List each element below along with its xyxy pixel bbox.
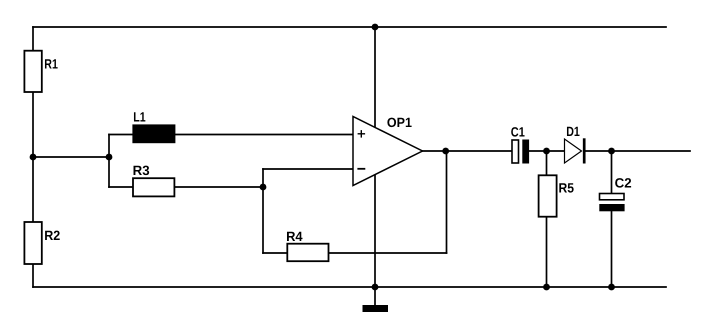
resistor R5	[539, 175, 575, 216]
pin minus of OP1	[358, 168, 364, 170]
wire node A to R2 top	[32, 157, 34, 222]
pin plus of OP1	[358, 131, 364, 137]
wire node C down to R4 row	[262, 187, 264, 253]
capacitor C2	[599, 175, 631, 211]
junction node B	[106, 154, 113, 161]
svg-text:R5: R5	[559, 181, 575, 196]
svg-text:R1: R1	[44, 57, 58, 72]
wire R5 bottom to bottom rail	[546, 217, 548, 288]
wire bottom ground rail	[33, 286, 666, 288]
junction on top rail at supply tap	[372, 24, 379, 31]
svg-text:R3: R3	[133, 163, 150, 178]
junction ground node	[372, 284, 379, 291]
resistor R4	[286, 229, 328, 261]
junction C2 bottom	[608, 284, 615, 291]
wire to L1 left	[109, 134, 133, 136]
wire C2 bottom to bottom rail	[611, 212, 613, 288]
junction node A	[30, 154, 37, 161]
svg-text:D1: D1	[566, 124, 580, 139]
wire to R4 left	[263, 252, 287, 254]
wire node D down to R5	[546, 151, 548, 176]
wire ground stub	[374, 287, 376, 305]
wire feedback riser to output node	[446, 151, 448, 253]
wire R2 bottom to bottom rail	[32, 264, 34, 287]
junction output node	[442, 148, 449, 155]
wire to op-amp minus input	[263, 168, 353, 170]
wire to R3 left	[109, 186, 133, 188]
junction node C	[260, 184, 267, 191]
svg-text:L1: L1	[133, 109, 146, 124]
wire op-amp negative supply to bottom rail	[374, 175, 376, 288]
wire node E to open output end	[612, 150, 691, 152]
resistor R1	[24, 51, 58, 92]
wire node A to node B	[33, 156, 109, 158]
wire node B up to L1 row	[108, 135, 110, 158]
wire node C up to minus row	[262, 169, 264, 187]
junction node E	[608, 148, 615, 155]
junction node D	[543, 148, 550, 155]
svg-text:R2: R2	[44, 228, 60, 243]
wire D1 cathode to node E	[584, 150, 612, 152]
wire op-amp output to C1	[423, 150, 513, 152]
wire op-amp positive supply	[374, 27, 376, 128]
resistor R3	[133, 163, 175, 196]
wire R1 bottom to node A	[32, 92, 34, 157]
svg-text:R4: R4	[286, 229, 303, 244]
wire left rail upper (top rail to R1)	[32, 27, 34, 51]
resistor R2	[24, 222, 60, 264]
wire R3 right to node C	[174, 186, 263, 188]
wire C1 to D1 with node D	[529, 150, 565, 152]
svg-text:C2: C2	[615, 175, 632, 190]
wire L1 right to op-amp plus input	[175, 134, 353, 136]
wire node E down to C2	[611, 151, 613, 194]
wire top supply rail	[33, 26, 666, 28]
inductor L1	[133, 109, 175, 142]
svg-text:C1: C1	[511, 125, 525, 140]
wire node B down to R3 row	[108, 157, 110, 187]
wire R4 right to feedback riser	[329, 252, 447, 254]
ground	[363, 305, 389, 312]
capacitor C1	[511, 125, 529, 164]
op-amp U1 OP1	[353, 115, 423, 186]
junction R5 bottom	[543, 284, 550, 291]
diode D1	[565, 124, 585, 164]
svg-text:OP1: OP1	[387, 115, 412, 130]
